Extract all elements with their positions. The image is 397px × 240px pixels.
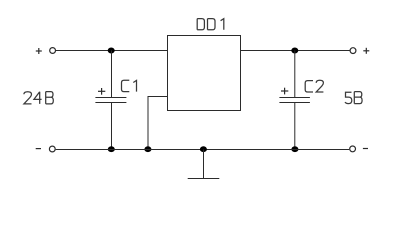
wire top rail from input terminal to DD1 pin (56, 50, 168, 52)
label 5B (output voltage 5V) (345, 92, 362, 104)
terminal X2.1 (+5V output) (350, 48, 356, 54)
label 24B (input voltage 24V) (24, 92, 53, 104)
terminal X1.2 (input negative) (49, 146, 55, 152)
terminal X2.2 (output negative) (350, 146, 356, 152)
label C1 (122, 80, 137, 91)
junction DD1 common pin on 0V rail (144, 146, 151, 152)
label − (input negative polarity) (36, 148, 41, 150)
wire DD1 output pin to +5V rail (241, 50, 350, 52)
label DD1 (197, 19, 224, 30)
label + (C2 positive plate mark) (281, 88, 288, 95)
capacitor C1 (electrolytic, input filter) (95, 51, 126, 150)
junction ground node on 0V rail (200, 146, 207, 152)
junction node A (C1 top on +24V rail) (108, 48, 115, 54)
IC DD1 voltage regulator body (168, 36, 241, 111)
label + (C1 positive plate mark) (98, 88, 105, 95)
label + (input positive polarity) (36, 48, 42, 54)
junction C2 bottom on 0V rail (291, 146, 298, 152)
capacitor C2 (electrolytic, output filter) (279, 51, 310, 150)
label − (output negative polarity) (363, 148, 368, 150)
terminal X1.1 (+24V input) (50, 48, 56, 54)
wire bottom 0V rail (56, 149, 350, 151)
junction C1 bottom on 0V rail (108, 146, 115, 152)
wire DD1 common (GND) pin to 0V rail (148, 97, 168, 150)
label C2 (305, 80, 323, 92)
ground symbol (188, 150, 220, 179)
label + (output positive polarity) (363, 48, 369, 54)
junction node B (C2 top on +5V rail) (291, 48, 298, 54)
